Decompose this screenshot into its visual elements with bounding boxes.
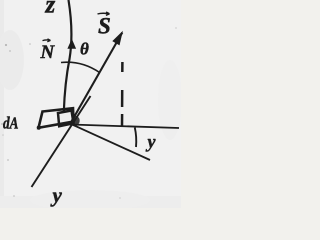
paper background bbox=[0, 0, 181, 208]
over-arrow of N bbox=[43, 39, 51, 42]
svg-text:z: z bbox=[45, 0, 56, 19]
vector N arrowhead (normal along z) bbox=[67, 39, 76, 49]
vector S shaft bbox=[70, 33, 123, 126]
x diagonal axis bbox=[71, 124, 150, 160]
y axis line bbox=[32, 96, 91, 187]
svg-text:θ: θ bbox=[80, 40, 89, 59]
phi angle arc bbox=[135, 128, 136, 147]
theta angle arc bbox=[61, 62, 100, 72]
corner blob bbox=[37, 126, 41, 130]
z axis line bbox=[64, 0, 72, 112]
surface element dA parallelogram bbox=[39, 108, 74, 128]
svg-text:dA: dA bbox=[3, 114, 19, 133]
svg-text:N: N bbox=[40, 42, 56, 63]
over-arrow of S bbox=[98, 12, 110, 15]
origin cluster blob bbox=[70, 115, 81, 126]
dashed projection line bbox=[121, 62, 124, 127]
inner dark element bbox=[58, 111, 74, 127]
svg-text:y: y bbox=[146, 132, 157, 152]
svg-text:S: S bbox=[98, 14, 111, 39]
horizontal axis bbox=[71, 125, 179, 129]
scan speckles bbox=[1, 27, 177, 199]
paper mottling bbox=[0, 0, 182, 210]
vector S arrowhead bbox=[112, 31, 123, 46]
